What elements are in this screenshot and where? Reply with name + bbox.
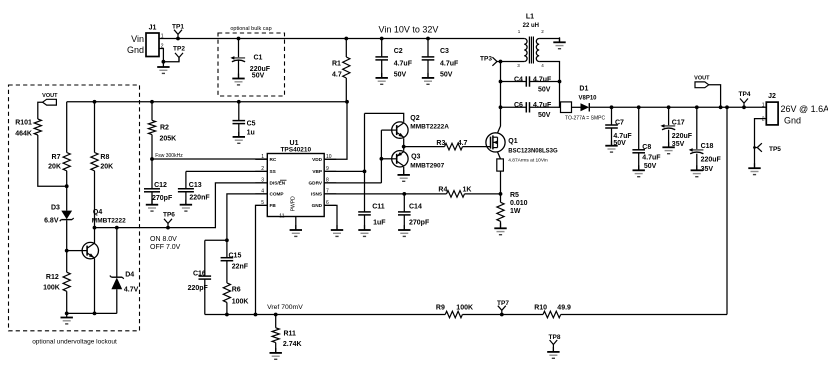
svg-text:50V: 50V [440, 72, 453, 79]
svg-text:11: 11 [279, 214, 284, 220]
svg-text:R10: R10 [534, 304, 547, 311]
svg-text:Vin: Vin [131, 34, 144, 44]
svg-text:26V @ 1.6A: 26V @ 1.6A [781, 104, 828, 114]
svg-text:R5: R5 [510, 192, 519, 199]
svg-text:Q2: Q2 [410, 115, 419, 122]
svg-text:4.7V: 4.7V [124, 286, 139, 293]
svg-text:8: 8 [326, 177, 329, 183]
svg-text:Gnd: Gnd [784, 115, 801, 125]
svg-text:R7: R7 [52, 154, 61, 161]
svg-text:TP7: TP7 [497, 300, 509, 307]
svg-text:3: 3 [261, 177, 264, 183]
svg-text:C6: C6 [514, 102, 523, 109]
svg-text:VOUT: VOUT [42, 93, 58, 99]
svg-text:Vref 700mV: Vref 700mV [267, 304, 303, 311]
svg-text:R101: R101 [15, 120, 32, 127]
svg-text:R3: R3 [436, 140, 445, 147]
svg-text:1K: 1K [463, 186, 472, 193]
svg-text:22 uH: 22 uH [523, 23, 539, 29]
svg-text:2: 2 [261, 166, 264, 172]
svg-text:TP3: TP3 [480, 55, 492, 62]
svg-text:22nF: 22nF [232, 264, 249, 271]
svg-text:1W: 1W [510, 208, 521, 215]
svg-text:C8: C8 [642, 144, 651, 151]
svg-text:0.010: 0.010 [510, 200, 528, 207]
svg-text:4.7uF: 4.7uF [533, 76, 552, 83]
svg-text:50V: 50V [252, 72, 265, 79]
svg-text:VBP: VBP [312, 169, 322, 174]
svg-text:10: 10 [326, 154, 332, 160]
svg-text:Q3: Q3 [411, 154, 420, 161]
svg-text:R2: R2 [160, 124, 169, 131]
svg-text:Fsw 300kHz: Fsw 300kHz [155, 153, 183, 159]
svg-text:C3: C3 [440, 48, 449, 55]
svg-text:C1: C1 [254, 54, 263, 61]
svg-text:R12: R12 [46, 274, 59, 281]
svg-text:GND: GND [312, 203, 323, 208]
svg-text:FB: FB [270, 203, 277, 208]
svg-text:C17: C17 [672, 119, 685, 126]
svg-text:270pF: 270pF [409, 220, 430, 227]
svg-text:TP5: TP5 [769, 146, 781, 153]
svg-text:C7: C7 [615, 119, 624, 126]
svg-text:TP8: TP8 [549, 334, 561, 341]
svg-text:Vin 10V to 32V: Vin 10V to 32V [379, 24, 439, 34]
svg-text:4: 4 [261, 188, 264, 194]
svg-text:RC: RC [270, 157, 277, 162]
svg-text:4.7uF: 4.7uF [440, 61, 459, 68]
svg-text:5: 5 [261, 200, 264, 206]
svg-text:D3: D3 [51, 205, 60, 212]
svg-text:PWPD: PWPD [291, 196, 297, 211]
svg-text:20K: 20K [48, 164, 61, 171]
svg-text:4.7: 4.7 [332, 71, 342, 78]
svg-text:50V: 50V [394, 72, 407, 79]
svg-text:C15: C15 [229, 252, 242, 259]
svg-text:SS: SS [270, 169, 276, 174]
svg-text:GDRV: GDRV [309, 181, 323, 186]
svg-text:50V: 50V [613, 140, 626, 147]
svg-text:4.7uF: 4.7uF [642, 154, 661, 161]
svg-text:35V: 35V [672, 141, 685, 148]
svg-text:optional bulk cap: optional bulk cap [230, 26, 271, 32]
svg-text:TP2: TP2 [173, 46, 185, 53]
svg-text:ON 8.0V: ON 8.0V [150, 236, 177, 243]
svg-text:6.8V: 6.8V [44, 217, 59, 224]
svg-text:OFF 7.0V: OFF 7.0V [150, 244, 181, 251]
svg-text:220pF: 220pF [188, 285, 209, 292]
svg-text:TP4: TP4 [739, 91, 751, 98]
svg-text:4.87Arms at 10Vin: 4.87Arms at 10Vin [508, 157, 548, 163]
svg-text:6: 6 [326, 200, 329, 206]
svg-text:4.7uF: 4.7uF [394, 61, 413, 68]
svg-text:100K: 100K [43, 285, 60, 292]
svg-text:7: 7 [326, 188, 329, 194]
svg-text:20K: 20K [100, 164, 113, 171]
svg-text:C2: C2 [394, 48, 403, 55]
svg-text:TP6: TP6 [163, 212, 175, 219]
svg-text:220uF: 220uF [672, 133, 693, 140]
svg-text:C12: C12 [154, 182, 167, 189]
svg-text:TO-277A = SMPC: TO-277A = SMPC [565, 116, 605, 122]
svg-text:C16: C16 [193, 271, 206, 278]
svg-text:C4: C4 [514, 76, 523, 83]
svg-text:L1: L1 [526, 13, 534, 20]
svg-text:50V: 50V [538, 112, 551, 119]
svg-text:VDD: VDD [312, 157, 323, 162]
svg-text:C5: C5 [247, 121, 256, 128]
svg-text:270pF: 270pF [152, 195, 173, 202]
svg-text:J2: J2 [768, 93, 776, 100]
svg-text:J1: J1 [149, 25, 157, 32]
svg-text:464K: 464K [15, 131, 32, 138]
svg-text:optional undervoltage lockout: optional undervoltage lockout [32, 339, 117, 346]
svg-text:R4: R4 [438, 186, 447, 193]
svg-text:Q4: Q4 [93, 209, 102, 216]
svg-text:R11: R11 [284, 331, 297, 338]
svg-text:R6: R6 [232, 287, 241, 294]
svg-text:205K: 205K [160, 136, 177, 143]
svg-text:C11: C11 [372, 204, 385, 211]
svg-text:Q1: Q1 [508, 138, 517, 145]
svg-text:R8: R8 [100, 154, 109, 161]
svg-text:DIS/EN: DIS/EN [270, 181, 286, 186]
svg-text:9: 9 [326, 166, 329, 172]
svg-text:35V: 35V [701, 166, 714, 173]
svg-text:R9: R9 [436, 304, 445, 311]
svg-text:220nF: 220nF [189, 194, 210, 201]
svg-text:C14: C14 [409, 204, 422, 211]
svg-text:C13: C13 [189, 182, 202, 189]
svg-text:4.7uF: 4.7uF [613, 133, 632, 140]
svg-text:4.7uF: 4.7uF [533, 102, 552, 109]
svg-text:D4: D4 [125, 272, 134, 279]
svg-text:MMBT2222: MMBT2222 [92, 217, 126, 224]
svg-text:C18: C18 [701, 143, 714, 150]
svg-text:4.7: 4.7 [458, 140, 468, 147]
svg-text:2: 2 [161, 44, 164, 50]
svg-text:50V: 50V [644, 163, 657, 170]
svg-text:1u: 1u [247, 130, 255, 137]
svg-text:220uF: 220uF [701, 157, 722, 164]
svg-text:COMP: COMP [270, 192, 284, 197]
svg-text:2: 2 [762, 116, 765, 122]
svg-text:MMBT2907: MMBT2907 [410, 162, 444, 169]
svg-text:ISNS: ISNS [311, 192, 322, 197]
svg-text:1: 1 [762, 102, 765, 108]
svg-text:100K: 100K [456, 304, 473, 311]
svg-text:49.9: 49.9 [557, 304, 571, 311]
svg-text:D1: D1 [579, 85, 588, 92]
svg-text:TPS40210: TPS40210 [280, 147, 311, 154]
svg-text:BSC123N08LS3G: BSC123N08LS3G [508, 149, 558, 155]
svg-text:1: 1 [161, 34, 164, 40]
svg-text:Gnd: Gnd [127, 45, 144, 55]
svg-text:V8P10: V8P10 [579, 95, 598, 101]
svg-text:R1: R1 [332, 60, 341, 67]
svg-text:1uF: 1uF [373, 220, 386, 227]
svg-text:MMBT2222A: MMBT2222A [410, 124, 449, 131]
svg-text:1: 1 [261, 154, 264, 160]
svg-text:2.74K: 2.74K [283, 341, 302, 348]
svg-text:TP1: TP1 [172, 24, 184, 31]
svg-text:VOUT: VOUT [694, 75, 710, 81]
svg-text:100K: 100K [232, 299, 249, 306]
svg-text:50V: 50V [538, 86, 551, 93]
